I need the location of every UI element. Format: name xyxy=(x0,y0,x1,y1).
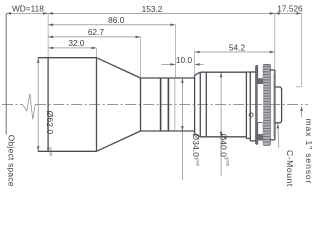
svg-text:Ø40.0: Ø40.0 xyxy=(219,134,229,158)
Ø34 dim line xyxy=(181,78,183,180)
knurl grid underlay xyxy=(263,65,270,145)
collar inner line xyxy=(273,73,275,136)
dim row 10.0 xyxy=(161,63,175,65)
C-Mount leader arrow xyxy=(277,123,280,128)
extension lines xyxy=(48,13,301,86)
extension line at x96.5 xyxy=(96,48,98,58)
svg-text:153.2: 153.2 xyxy=(142,4,163,14)
Ø34 tube xyxy=(141,77,195,79)
collar ring xyxy=(270,69,275,71)
focus ring step B xyxy=(249,72,251,141)
extension line at x140.5 xyxy=(140,37,142,78)
svg-text:17.526: 17.526 xyxy=(277,4,303,14)
sensor plane tick already in ext; leader for max sensor xyxy=(301,109,303,118)
svg-text:Ø34.0: Ø34.0 xyxy=(191,134,201,158)
main barrel xyxy=(194,75,196,134)
front barrel Ø62 xyxy=(38,57,97,59)
lens outline xyxy=(38,58,195,152)
svg-text:86.0: 86.0 xyxy=(108,15,125,25)
extension line at C-mount flange x274.8 xyxy=(274,13,276,70)
svg-text:C-Mount: C-Mount xyxy=(285,150,295,187)
svg-text:-0.039: -0.039 xyxy=(48,147,52,157)
dim row 54.2 xyxy=(195,51,275,53)
svg-text:Object space: Object space xyxy=(7,135,17,187)
knurl block xyxy=(255,66,257,144)
WD xyxy=(6,12,11,15)
svg-text:Ø62.0: Ø62.0 xyxy=(45,111,55,135)
Ø40 dim line xyxy=(220,72,222,176)
dim row2 86.0 xyxy=(48,24,175,26)
C-mount thread xyxy=(275,87,282,123)
Ø62 xyxy=(37,58,40,63)
arrowheads xyxy=(6,12,303,151)
bottom slot xyxy=(258,123,264,145)
153.2 xyxy=(48,12,53,15)
set screw xyxy=(249,113,253,117)
extension line at x194.6 xyxy=(194,51,196,76)
extension line at front face x48 xyxy=(47,13,49,57)
tube dark band xyxy=(161,78,169,131)
svg-text:62.7: 62.7 xyxy=(88,27,105,37)
object plane line xyxy=(5,13,7,134)
dim row4 32.0 xyxy=(48,47,96,49)
62.7 xyxy=(48,36,53,39)
svg-text:WD=118: WD=118 xyxy=(12,4,44,14)
10.0 outside xyxy=(170,63,175,66)
54.2 xyxy=(195,51,200,54)
texts xyxy=(12,4,303,66)
top slot xyxy=(258,66,264,84)
32.0 xyxy=(48,47,53,50)
focus ring step A xyxy=(245,72,247,138)
svg-text:-0.039: -0.039 xyxy=(225,157,229,167)
sensor plane line x301.5 xyxy=(301,13,303,86)
break symbol zigzag xyxy=(23,94,36,120)
centerline xyxy=(2,104,308,106)
Ø34 xyxy=(181,78,184,83)
dim row1 WD=118 xyxy=(6,12,301,14)
svg-text:32.0: 32.0 xyxy=(68,38,85,48)
sensor leader arrow xyxy=(300,106,303,111)
C-Mount leader xyxy=(278,125,279,148)
svg-text:10.0: 10.0 xyxy=(176,55,193,65)
knurl grid xyxy=(263,66,269,142)
svg-text:54.2: 54.2 xyxy=(229,42,246,52)
extension line at x175.4 xyxy=(174,25,176,78)
sensor plane tick xyxy=(296,86,302,88)
17.526 xyxy=(275,12,280,15)
tube groove line xyxy=(174,78,176,131)
knurl slot walls xyxy=(256,66,258,144)
svg-text:max 1" sensor: max 1" sensor xyxy=(304,119,312,185)
86.0 xyxy=(48,24,53,27)
svg-text:-0.039: -0.039 xyxy=(196,157,200,167)
Ø62 dim line xyxy=(37,58,39,152)
dim row3 62.7 xyxy=(48,36,140,38)
cone xyxy=(97,58,141,78)
Ø40 xyxy=(220,72,223,77)
